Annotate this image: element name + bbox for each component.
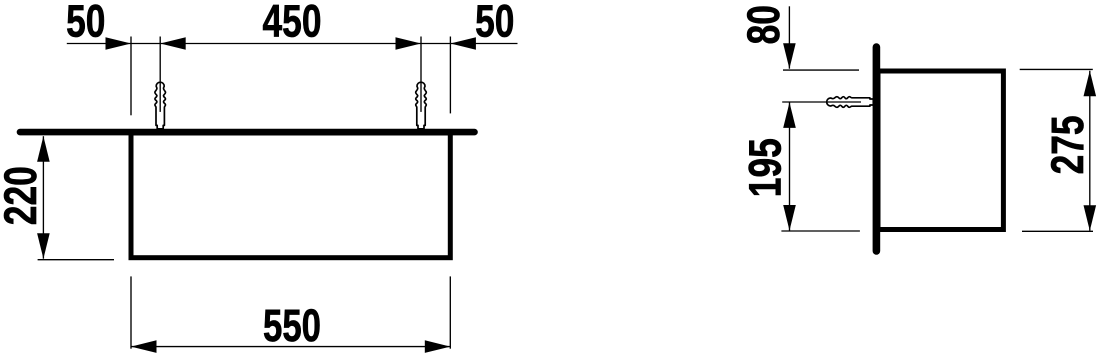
wall plug left (front view) (155, 82, 166, 129)
svg-text:50: 50 (66, 0, 105, 46)
centre line through side plug (782, 101, 861, 103)
arrow down at box top (783, 43, 796, 68)
extension line right edge (449, 37, 451, 114)
arrow up 275 (1084, 71, 1097, 97)
svg-text:275: 275 (1042, 115, 1093, 174)
front view: shelf top panel (20, 129, 475, 136)
dimension line 550 (131, 346, 450, 348)
arrow down 275 (1084, 205, 1097, 231)
svg-text:80: 80 (738, 5, 789, 44)
svg-text:50: 50 (475, 0, 514, 46)
label 80 (738, 5, 789, 44)
arrow left at right edge (450, 37, 476, 50)
label 220 (0, 166, 46, 225)
arrow right at left edge (106, 37, 132, 50)
wall plug right (front view) (416, 82, 427, 129)
extension line for 550 right (449, 276, 451, 348)
label 50 left (66, 0, 105, 46)
front view: cabinet box under shelf (131, 133, 450, 258)
dimension line 220 (42, 136, 44, 259)
arrow left end 550 (131, 340, 157, 353)
centre line through left plug (159, 37, 161, 112)
arrow down at box bottom (37, 233, 50, 259)
extension line box bottom (side) (781, 230, 860, 232)
svg-text:550: 550 (263, 300, 321, 351)
extension line 275 bottom (1022, 230, 1093, 232)
side view: back panel (873, 47, 881, 251)
extension line left edge (130, 37, 132, 116)
arrow up at plug axis (783, 102, 796, 128)
dimension line 80 (788, 6, 790, 68)
label 450 (263, 0, 322, 46)
svg-text:450: 450 (263, 0, 322, 46)
extension line 275 top (1020, 68, 1093, 70)
arrow up at shelf underside (37, 136, 50, 162)
wall plug (side view) (827, 97, 874, 108)
arrow right end 550 (425, 340, 451, 353)
label 195 (740, 138, 791, 197)
arrow left at left plug (160, 37, 186, 50)
arrow down at box bottom (side) (783, 205, 796, 231)
label 50 right (475, 0, 514, 46)
dimension line 195 (789, 102, 791, 230)
top dimension line (67, 43, 518, 45)
extension line for 550 left (130, 276, 132, 348)
side view: cabinet box (878, 71, 1003, 230)
dimension line 275 (1089, 71, 1091, 231)
label 550 (263, 300, 321, 351)
arrow right at right plug (396, 37, 422, 50)
extension line box top (side) (783, 69, 859, 71)
svg-text:195: 195 (740, 138, 791, 197)
centre line through right plug (420, 37, 422, 112)
label 275 (1042, 115, 1093, 174)
extension line box bottom left (38, 259, 114, 261)
svg-text:220: 220 (0, 166, 46, 225)
